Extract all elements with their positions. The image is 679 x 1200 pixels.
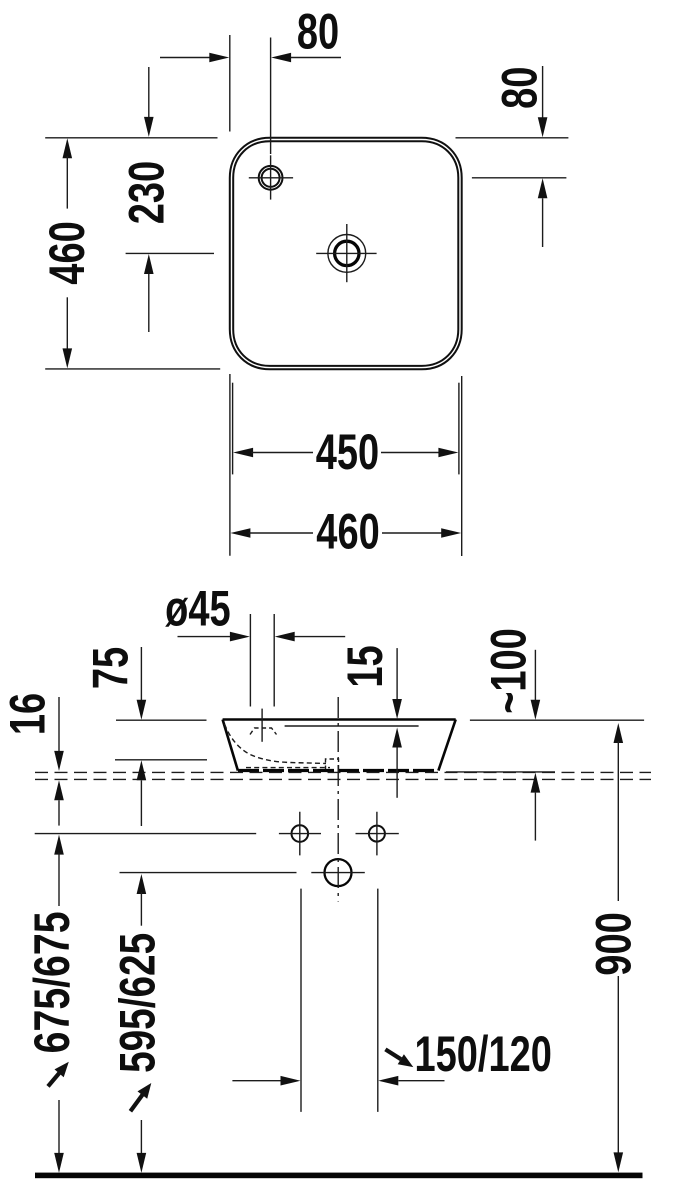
dim 460 left: extension line bottom: [45, 368, 220, 370]
svg-text:595/625: 595/625: [111, 933, 166, 1073]
svg-text:80: 80: [492, 67, 547, 109]
drain hidden box (side): [326, 759, 339, 770]
right fixing hole crosshair: [356, 812, 399, 856]
basin right slope (side): [438, 720, 455, 771]
dim 15: lower tail: [396, 748, 398, 798]
faucet hole hidden outline (side): [250, 728, 277, 735]
drain crosshair horizontal (side): [311, 872, 365, 874]
countertop bottom dashed line: [35, 778, 651, 780]
dim ~100: lower tail: [534, 793, 536, 841]
dim 16: lower tail: [58, 800, 60, 825]
dim 460 left: extension line top: [45, 137, 217, 139]
svg-text:150/120: 150/120: [415, 1027, 552, 1082]
dim 675/675: lower segment: [58, 1100, 60, 1155]
dim 595/625: leader arrow: [130, 1095, 142, 1111]
dim 16: arrowhead down: [54, 751, 64, 771]
dim ~100: arrowhead down: [531, 700, 541, 720]
drain circle (side): [325, 859, 352, 886]
dim 460 left: lower segment: [66, 297, 68, 350]
drain level extension line: [120, 872, 297, 874]
dim d45: right tail: [294, 636, 345, 638]
drain outer circle (plan): [328, 235, 366, 273]
faucet axis vertical (side): [261, 709, 263, 742]
dim 75: lower tail: [140, 780, 142, 826]
dim d45: arrowhead left: [275, 632, 295, 642]
dim 595/625: lower segment: [140, 1120, 142, 1155]
dim 16: arrowhead up: [54, 780, 64, 800]
drain centerline vertical: [337, 697, 339, 902]
dim 150/120: leader arrow: [385, 1049, 401, 1059]
dim 595/625: arrowhead up: [137, 874, 147, 894]
svg-text:80: 80: [297, 5, 339, 60]
dim 150/120: arrowhead right: [281, 1076, 301, 1086]
left fixing hole crosshair: [279, 812, 321, 856]
faucet hole inner circle (plan): [262, 169, 280, 187]
fixing holes level extension line: [35, 833, 257, 835]
drain crosshair vertical: [346, 224, 348, 282]
dim 460 left: upper segment: [66, 156, 68, 209]
dim 80 right: extension line basin top edge: [456, 137, 569, 139]
dim 150/120: left extension line: [300, 889, 302, 1112]
dim 675/675: arrowhead down at floor: [54, 1153, 64, 1173]
dim 460 bottom: left segment: [248, 532, 313, 534]
basin bottom edge bold dashed: [238, 769, 438, 772]
dim 460 left: arrowhead up: [63, 138, 73, 158]
dim 460 bottom: arrowhead right: [441, 528, 461, 538]
svg-text:~100: ~100: [481, 628, 536, 714]
dim 75: arrowhead up: [137, 760, 147, 780]
dim 900: arrowhead down at floor: [614, 1152, 624, 1172]
svg-text:460: 460: [40, 221, 95, 284]
faucet hole crosshair vertical: [270, 155, 272, 199]
dim 80 top: extension line basin left edge: [229, 35, 231, 132]
dim 15: arrowhead up: [392, 728, 402, 748]
dim d45: left tail: [178, 636, 232, 638]
dim ~100: upper tail: [534, 650, 536, 700]
dim 80 top: extension line faucet axis: [270, 38, 272, 155]
dim 80 top: arrowhead right: [209, 53, 229, 63]
floor line: [35, 1173, 643, 1179]
svg-text:16: 16: [1, 693, 56, 735]
basin inner contour (plan view): [233, 141, 458, 366]
dim 595/625: arrowhead down at floor: [137, 1153, 147, 1173]
dim 150/120: left tail: [232, 1080, 281, 1082]
svg-text:230: 230: [120, 161, 175, 224]
dim ~100: arrowhead up: [531, 773, 541, 793]
basin inner ledge line (15 ref): [285, 725, 419, 727]
drain inner circle bold (plan): [335, 241, 359, 265]
rim level extension line right: [470, 719, 644, 721]
dim 230: arrowhead down: [144, 117, 154, 137]
svg-text:75: 75: [84, 647, 139, 689]
dim 450: arrowhead left: [233, 448, 253, 458]
dim 80 right: arrowhead down: [538, 117, 548, 137]
dim 460 bottom: right segment: [382, 532, 443, 534]
dim 450: arrowhead right: [438, 448, 458, 458]
dim 15: arrowhead down: [392, 699, 402, 719]
dim 16: upper tail: [58, 697, 60, 751]
dim 230: extension line drain level: [126, 252, 214, 254]
countertop top solid extension segment: [446, 771, 555, 773]
drain crosshair horizontal: [316, 252, 376, 254]
svg-text:450: 450: [316, 425, 379, 480]
faucet hole crosshair horizontal: [249, 177, 293, 179]
basin outer contour (plan view): [230, 138, 462, 369]
basin interior floor hidden line: [246, 767, 330, 769]
dim 900: lower segment: [617, 976, 619, 1154]
dim 900: arrowhead up: [614, 723, 624, 743]
svg-text:460: 460: [316, 505, 379, 560]
faucet hole outer circle (plan): [259, 166, 283, 190]
basin interior bowl hidden curve: [225, 724, 327, 764]
countertop top dashed line: [35, 771, 651, 773]
dim 450: left segment: [251, 452, 313, 454]
right fixing hole circle: [369, 826, 385, 842]
dim 75: upper tail: [140, 647, 142, 700]
dim 80 top: left tail: [160, 57, 210, 59]
dim 80 right: arrowhead up: [538, 178, 548, 198]
dim 230: upper arrow tail: [148, 67, 150, 118]
dim 460 bottom: left extension line: [229, 374, 231, 556]
dim 675/675: upper segment: [58, 853, 60, 906]
dim 150/120: right tail: [398, 1080, 444, 1082]
dim d45: right extension line: [273, 614, 275, 707]
dim 900: upper segment: [617, 741, 619, 901]
dim 80 right: upper tail: [542, 66, 544, 118]
dim 15: upper tail: [396, 648, 398, 699]
basin rim top edge (side): [223, 718, 456, 721]
svg-text:675/675: 675/675: [23, 911, 80, 1053]
dim 75: arrowhead down: [137, 700, 147, 720]
dim 80 right: lower tail: [542, 198, 544, 247]
dim 450: left extension line: [232, 383, 234, 475]
dim 450: right segment: [381, 452, 441, 454]
dim 675/675: leader arrow: [48, 1073, 59, 1086]
basin left slope (side): [223, 720, 238, 771]
dim d45: arrowhead right: [230, 632, 250, 642]
dim 230: arrowhead up: [144, 254, 154, 274]
dim 595/625: upper segment: [140, 892, 142, 926]
dim 460 left: arrowhead down: [63, 348, 73, 368]
75 lower reference line: [115, 759, 207, 761]
dim 80 top: right tail: [291, 57, 341, 59]
svg-text:15: 15: [338, 645, 393, 687]
dim d45: left extension line: [249, 614, 251, 707]
dim 675/675: arrowhead up: [54, 835, 64, 855]
dim 450: right extension line: [458, 383, 460, 475]
dim 460 bottom: arrowhead left: [230, 528, 250, 538]
dim 150/120: arrowhead left: [378, 1076, 398, 1086]
dim 80 top: arrowhead left: [271, 53, 291, 63]
dim 150/120: right extension line: [377, 889, 379, 1112]
dim 80 right: extension line faucet level: [472, 177, 567, 179]
rim level extension line left: [116, 719, 207, 721]
svg-text:ø45: ø45: [165, 582, 230, 637]
svg-text:900: 900: [587, 912, 642, 975]
dim 460 bottom: right extension line: [461, 376, 463, 556]
left fixing hole circle: [292, 825, 309, 842]
dim 230: lower arrow tail: [148, 274, 150, 332]
